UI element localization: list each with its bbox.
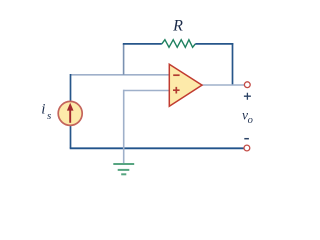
terminal top output [244,82,250,88]
wire: left branch vertical above current source [70,74,72,102]
op-amp non-inverting input plus mark [173,87,180,94]
ground symbol bar 1 [113,163,134,165]
ground symbol bar 3 [121,173,126,175]
minus sign at output [244,138,249,140]
ground symbol bar 2 [118,169,130,171]
current source is circle [58,101,82,125]
current source arrow [69,110,71,123]
svg-text:o: o [248,115,253,126]
svg-text:i: i [41,101,45,117]
terminal bottom output [244,145,250,151]
wire: ground vertical from non-inverting input [123,90,125,164]
wire: non-inverting input horizontal [124,90,170,92]
wire: right feedback vertical to output [232,43,234,85]
wire: op-amp output to terminal [202,84,244,86]
resistor R zigzag [162,40,196,48]
svg-text:s: s [47,110,51,122]
wire: bottom rail [70,147,244,149]
wire: feedback tap vertical to inverting input [123,44,125,75]
wire: top feedback left segment [123,43,162,45]
op-amp U1 triangle [169,64,202,106]
svg-text:R: R [172,17,183,34]
wire: left branch vertical below current source [70,125,72,148]
op-amp inverting input minus mark [173,74,179,76]
plus sign at output [244,93,251,100]
wire: inverting input horizontal from node A to op-amp [71,74,170,76]
wire: top feedback right segment [195,43,233,45]
